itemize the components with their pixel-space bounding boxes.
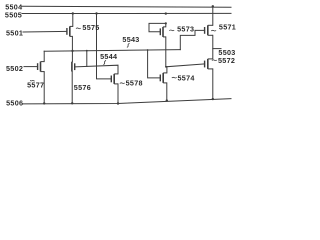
tilde 5578 xyxy=(120,82,125,85)
svg-text:5578: 5578 xyxy=(126,79,143,88)
tilde 5574 xyxy=(172,76,177,79)
wire lead 5502 xyxy=(24,66,38,68)
svg-text:5577: 5577 xyxy=(27,80,44,89)
svg-text:5505: 5505 xyxy=(5,10,22,19)
junction 5572 source on rail 5506 xyxy=(212,98,214,100)
wire 5503 stub xyxy=(213,48,221,50)
junction 5574 drain on 5572 gate wire xyxy=(165,66,167,68)
svg-text:5575: 5575 xyxy=(82,23,99,32)
tilde 5544 xyxy=(103,60,106,64)
wire node A to 5571 gate xyxy=(180,30,204,49)
tilde 5571 xyxy=(211,29,216,32)
tilde 5577 xyxy=(30,80,34,81)
wire lead 5501 xyxy=(23,30,67,33)
svg-text:5502: 5502 xyxy=(6,64,23,73)
svg-text:5543: 5543 xyxy=(122,35,139,44)
junction 5577 source on rail 5506 xyxy=(43,102,45,104)
transistor 5574 xyxy=(160,73,167,83)
svg-text:5576: 5576 xyxy=(74,83,91,92)
junction node A to node B branch xyxy=(86,50,88,52)
junction node A to 5574 gate branch xyxy=(147,49,149,51)
transistor 5573 xyxy=(160,23,166,37)
junction 5573 drain on rail 5505 xyxy=(165,12,167,14)
junction node A x 5575/5576 column xyxy=(71,50,73,52)
tilde 5573 xyxy=(169,29,174,32)
tilde 5575 xyxy=(76,27,81,30)
junction 5573 gate loop on drain xyxy=(165,22,167,24)
wire 5577 drain xyxy=(43,51,45,61)
svg-text:5573: 5573 xyxy=(177,24,194,33)
junction 5576 source on rail 5506 xyxy=(71,102,73,104)
transistor 5572 xyxy=(205,59,213,69)
svg-text:5544: 5544 xyxy=(100,52,117,61)
wire node A to node B xyxy=(86,51,88,67)
wire 5574 drain xyxy=(166,67,168,73)
wire rail 5504 xyxy=(22,6,231,7)
wire 5575 drain xyxy=(72,14,74,27)
wire 5572 source xyxy=(212,69,214,99)
tilde 5543 xyxy=(127,43,130,47)
transistor 5571 xyxy=(205,25,213,35)
transistor 5578 xyxy=(111,74,118,84)
wire node A to 5574 gate xyxy=(148,50,161,78)
svg-text:5571: 5571 xyxy=(219,22,236,31)
wire 5505 to 5578 gate xyxy=(97,14,112,79)
svg-text:5506: 5506 xyxy=(6,99,23,108)
node A wire 5543 xyxy=(44,50,180,52)
wire 5571 drain xyxy=(212,6,214,25)
wire node C to 5572 gate xyxy=(166,64,205,67)
wire 5577 source xyxy=(43,72,45,104)
wire output column 5571-5572 xyxy=(212,35,214,59)
node B wire 5544 xyxy=(75,65,118,74)
wire rail 5505 xyxy=(22,12,231,14)
transistor 5577 xyxy=(38,62,45,72)
wire 5578 source xyxy=(117,84,119,104)
wire rail 5506 xyxy=(23,99,232,104)
transistor 5575 xyxy=(67,26,73,36)
junction 5575 drain on rail 5505 xyxy=(72,12,74,14)
wire 5575 source / 5576 drain xyxy=(71,36,73,61)
wire node C column xyxy=(165,37,167,67)
wire 5574 source xyxy=(166,83,168,101)
svg-text:5501: 5501 xyxy=(6,29,23,38)
junction 5574 source on rail 5506 xyxy=(166,99,168,101)
svg-text:5572: 5572 xyxy=(218,56,235,65)
wire 5576 source xyxy=(71,72,73,104)
transistor 5576 xyxy=(72,62,75,72)
tilde 5572 xyxy=(212,59,217,62)
wire 5573 gate loop xyxy=(149,23,166,31)
junction 5578 source on rail 5506 xyxy=(117,102,119,104)
junction 5571 drain on rail 5504 xyxy=(212,5,214,7)
junction 5578 gate column on rail 5505 xyxy=(95,12,97,14)
svg-text:5574: 5574 xyxy=(178,74,195,83)
